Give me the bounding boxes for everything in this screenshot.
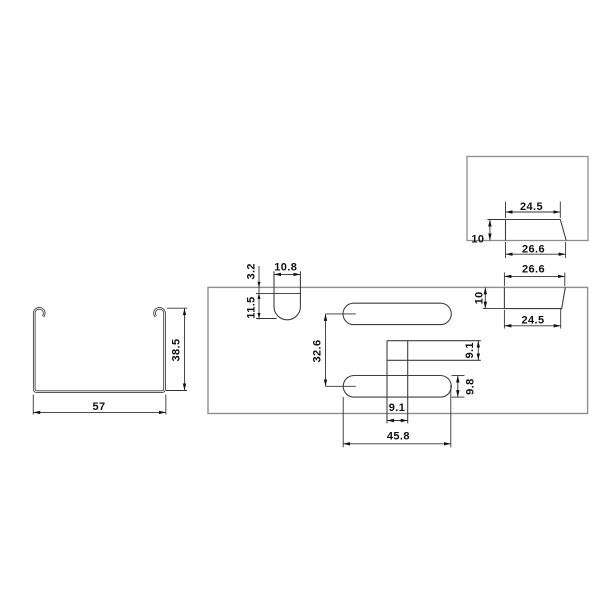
detail 2 dimension 26.6 bbox=[504, 263, 564, 286]
detail 1 dimension 26.6 bbox=[506, 242, 566, 258]
svg-text:9.8: 9.8 bbox=[464, 378, 476, 395]
detail view 1 boundary rectangle (top right) bbox=[467, 157, 588, 241]
detail 2 dimension 24.5 bbox=[504, 309, 560, 329]
slot 1 (upper stadium slot) bbox=[343, 303, 451, 324]
svg-text:10.8: 10.8 bbox=[274, 262, 297, 274]
svg-text:38.5: 38.5 bbox=[171, 338, 183, 361]
dimension 32.6 (slot centre distance) bbox=[311, 314, 356, 386]
detail 2 dimension 10 (rotated label) bbox=[474, 287, 505, 308]
svg-text:9.1: 9.1 bbox=[464, 342, 476, 359]
dimension 9.8 (slot 2 height) bbox=[452, 376, 477, 398]
detail 1 tab (trapezoid, wide at bottom) bbox=[506, 220, 567, 241]
svg-text:10: 10 bbox=[474, 291, 486, 304]
C-channel profile outline (side view, double line sheet) bbox=[34, 308, 164, 391]
square hole between slots (with extended edges) bbox=[387, 341, 481, 424]
dimension 57 (channel width) bbox=[33, 395, 166, 415]
svg-text:57: 57 bbox=[92, 401, 105, 413]
detail 2 tab (trapezoid on plate top edge) bbox=[504, 287, 565, 308]
dimensions 3.2 / 11.5 (left vertical dims) bbox=[245, 263, 300, 319]
svg-text:10: 10 bbox=[471, 234, 484, 246]
dimension 45.8 (slot 2 length) bbox=[343, 385, 451, 447]
dimension 9.1 (square height, right side) bbox=[464, 341, 479, 361]
svg-text:24.5: 24.5 bbox=[521, 314, 544, 326]
svg-text:26.6: 26.6 bbox=[522, 244, 545, 256]
dimension 38.5 (channel height) bbox=[166, 308, 187, 390]
detail 1 dimension 10 bbox=[471, 220, 505, 246]
svg-text:9.1: 9.1 bbox=[389, 402, 406, 414]
top-left U slot (10.8 wide) bbox=[274, 271, 300, 320]
svg-text:32.6: 32.6 bbox=[311, 339, 323, 362]
slot 2 (lower stadium slot) bbox=[343, 376, 451, 398]
plate outline (flat blank) bbox=[208, 287, 588, 413]
svg-text:3.2: 3.2 bbox=[245, 263, 257, 280]
svg-text:24.5: 24.5 bbox=[520, 201, 543, 213]
svg-text:11.5: 11.5 bbox=[245, 296, 257, 318]
svg-text:26.6: 26.6 bbox=[522, 263, 545, 275]
dimension 9.1 (square width, below plate) bbox=[387, 402, 408, 421]
svg-text:45.8: 45.8 bbox=[387, 431, 410, 443]
detail 1 dimension 24.5 bbox=[506, 201, 561, 218]
dimension 10.8 (slot width) bbox=[274, 262, 300, 275]
